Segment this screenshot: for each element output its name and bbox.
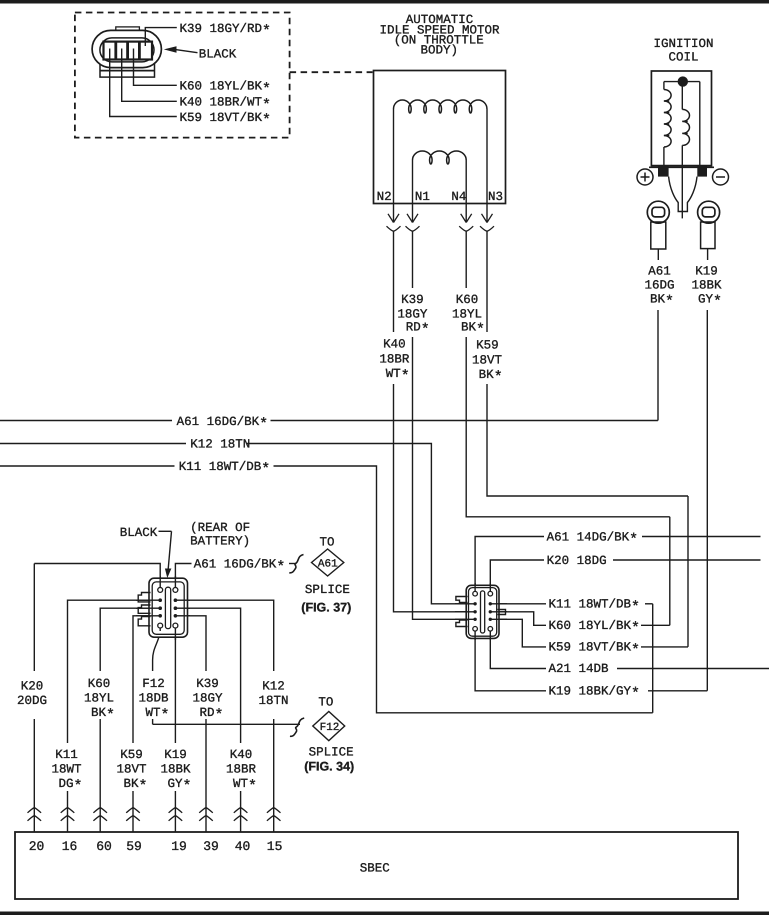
svg-text:BLACK: BLACK xyxy=(199,47,237,61)
svg-text:(REAR OF: (REAR OF xyxy=(190,521,250,535)
svg-text:K20: K20 xyxy=(21,680,44,694)
svg-text:K60: K60 xyxy=(456,293,479,307)
svg-text:39: 39 xyxy=(203,839,219,854)
svg-text:K40: K40 xyxy=(230,748,253,762)
svg-text:BATTERY): BATTERY) xyxy=(190,534,250,548)
svg-text:K59: K59 xyxy=(476,339,499,353)
svg-text:16DG: 16DG xyxy=(644,279,674,293)
svg-text:18DB: 18DB xyxy=(138,692,169,706)
svg-text:18GY: 18GY xyxy=(397,308,428,322)
svg-text:BLACK: BLACK xyxy=(120,526,158,540)
svg-text:18VT: 18VT xyxy=(472,354,503,368)
svg-text:18WT: 18WT xyxy=(51,763,82,777)
svg-text:SPLICE: SPLICE xyxy=(305,583,350,597)
svg-text:A61: A61 xyxy=(648,265,671,279)
svg-text:K20 18DG: K20 18DG xyxy=(547,554,607,568)
svg-text:20: 20 xyxy=(29,839,45,854)
svg-text:18BK: 18BK xyxy=(691,279,722,293)
svg-text:COIL: COIL xyxy=(668,50,698,64)
svg-text:15: 15 xyxy=(267,839,283,854)
svg-text:18BR: 18BR xyxy=(379,353,410,367)
svg-text:18BK: 18BK xyxy=(160,763,191,777)
svg-text:N1: N1 xyxy=(415,190,430,204)
svg-text:F12: F12 xyxy=(320,722,340,734)
svg-text:K60: K60 xyxy=(88,677,111,691)
svg-text:40: 40 xyxy=(235,839,251,854)
svg-text:K12 18TN: K12 18TN xyxy=(190,437,250,451)
svg-text:N3: N3 xyxy=(488,190,503,204)
svg-text:60: 60 xyxy=(96,839,112,854)
svg-text:18YL: 18YL xyxy=(452,308,482,322)
svg-text:SBEC: SBEC xyxy=(360,861,390,875)
svg-text:K40: K40 xyxy=(383,338,406,352)
svg-text:K19: K19 xyxy=(164,748,187,762)
svg-text:TO: TO xyxy=(319,536,334,550)
svg-text:K12: K12 xyxy=(262,680,285,694)
svg-text:K39: K39 xyxy=(196,677,219,691)
svg-text:18VT: 18VT xyxy=(116,763,147,777)
svg-text:BODY): BODY) xyxy=(421,44,459,58)
svg-text:K59: K59 xyxy=(120,748,143,762)
svg-text:A21 14DB: A21 14DB xyxy=(549,662,610,676)
svg-text:N4: N4 xyxy=(451,190,466,204)
svg-text:F12: F12 xyxy=(142,677,165,691)
svg-text:(FIG. 34): (FIG. 34) xyxy=(304,760,354,774)
svg-text:59: 59 xyxy=(126,839,142,854)
svg-text:SPLICE: SPLICE xyxy=(309,746,354,760)
svg-text:K39: K39 xyxy=(401,293,424,307)
svg-text:IGNITION: IGNITION xyxy=(653,37,713,51)
svg-text:K19: K19 xyxy=(695,265,718,279)
svg-text:18YL: 18YL xyxy=(84,692,114,706)
svg-text:18BR: 18BR xyxy=(226,763,257,777)
svg-text:16: 16 xyxy=(62,839,78,854)
svg-text:18GY: 18GY xyxy=(192,692,223,706)
svg-text:K11: K11 xyxy=(55,748,78,762)
svg-text:N2: N2 xyxy=(377,190,392,204)
svg-text:19: 19 xyxy=(171,839,187,854)
svg-text:A61: A61 xyxy=(318,558,338,570)
svg-text:TO: TO xyxy=(318,695,333,709)
svg-text:20DG: 20DG xyxy=(17,694,47,708)
svg-text:(FIG. 37): (FIG. 37) xyxy=(301,601,351,615)
svg-text:18TN: 18TN xyxy=(258,694,288,708)
